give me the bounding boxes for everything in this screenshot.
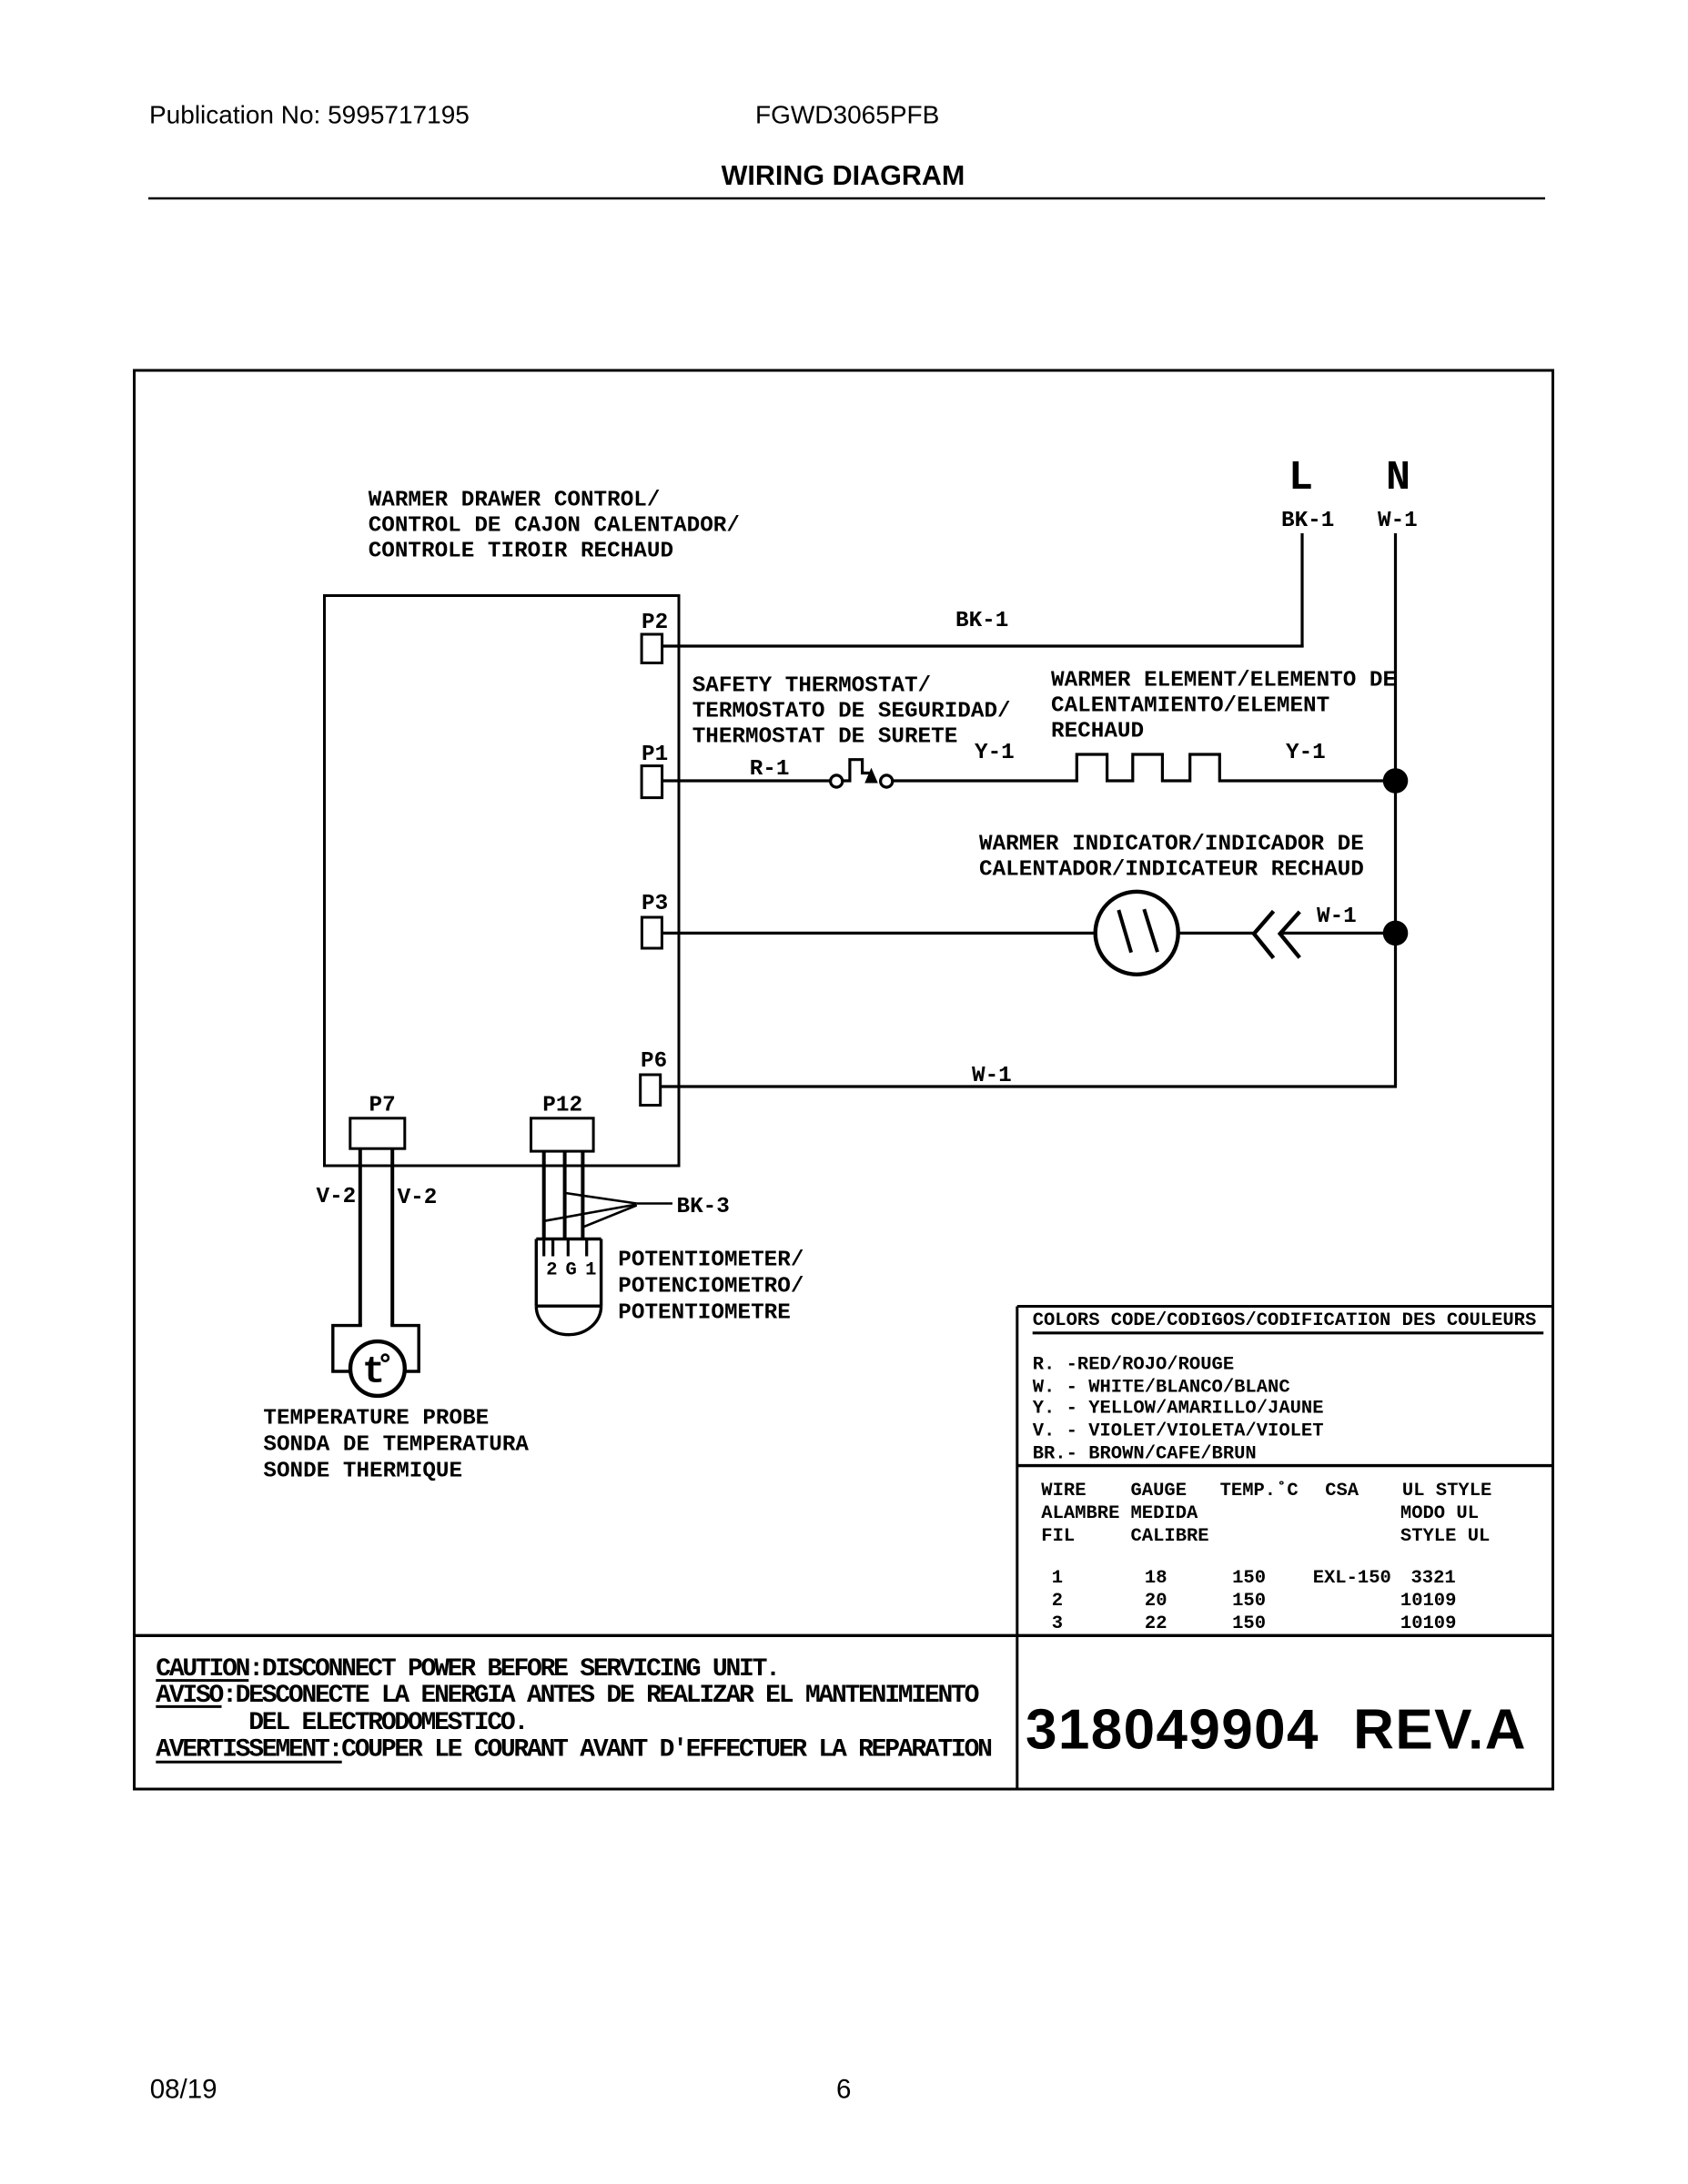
svg-text:COLORS CODE/CODIGOS/CODIFICATI: COLORS CODE/CODIGOS/CODIFICATION DES COU… [1033, 1310, 1537, 1331]
svg-text:SONDA DE TEMPERATURA: SONDA DE TEMPERATURA [263, 1433, 529, 1458]
svg-text:V-2: V-2 [398, 1186, 438, 1210]
svg-text:R. -RED/ROJO/ROUGE: R. -RED/ROJO/ROUGE [1033, 1354, 1234, 1375]
svg-text:W-1: W-1 [1378, 509, 1418, 533]
svg-text:W-1: W-1 [1317, 905, 1357, 929]
svg-text:P6: P6 [641, 1049, 667, 1074]
svg-text:Y-1: Y-1 [975, 741, 1015, 765]
svg-text:W-1: W-1 [972, 1064, 1012, 1088]
svg-text:SAFETY THERMOSTAT/: SAFETY THERMOSTAT/ [692, 674, 931, 699]
svg-text:L: L [1289, 455, 1313, 501]
svg-text:V-2: V-2 [317, 1185, 357, 1209]
svg-text:POTENCIOMETRO/: POTENCIOMETRO/ [618, 1275, 804, 1299]
svg-text:W. - WHITE/BLANCO/BLANC: W. - WHITE/BLANCO/BLANC [1033, 1377, 1290, 1398]
svg-text:V. - VIOLET/VIOLETA/VIOLET: V. - VIOLET/VIOLETA/VIOLET [1033, 1421, 1324, 1441]
svg-text:R-1: R-1 [750, 757, 790, 782]
svg-text:150: 150 [1232, 1613, 1266, 1634]
svg-text:UL STYLE: UL STYLE [1402, 1481, 1491, 1501]
svg-text:STYLE UL: STYLE UL [1400, 1526, 1490, 1547]
svg-text:318049904 REV.A: 318049904 REV.A [1026, 1699, 1527, 1762]
svg-text:10109: 10109 [1400, 1613, 1457, 1634]
svg-text:GAUGE: GAUGE [1131, 1481, 1188, 1501]
svg-text:20: 20 [1145, 1591, 1167, 1612]
svg-text:BK-1: BK-1 [955, 609, 1008, 633]
svg-text:10109: 10109 [1400, 1591, 1457, 1612]
svg-text:CALIBRE: CALIBRE [1131, 1526, 1209, 1547]
svg-text:Publication No: 5995717195: Publication No: 5995717195 [149, 101, 470, 129]
svg-text:BK-3: BK-3 [677, 1195, 730, 1219]
svg-text:6: 6 [836, 2075, 851, 2105]
svg-text:MEDIDA: MEDIDA [1131, 1503, 1199, 1524]
svg-text:FIL: FIL [1041, 1526, 1075, 1547]
svg-text:150: 150 [1232, 1568, 1266, 1589]
svg-text:P7: P7 [369, 1094, 396, 1118]
svg-text:2: 2 [546, 1259, 557, 1280]
svg-text:TEMPERATURE PROBE: TEMPERATURE PROBE [263, 1407, 489, 1431]
svg-text:P1: P1 [642, 743, 668, 767]
svg-text:CAUTION:DISCONNECT POWER BEFOR: CAUTION:DISCONNECT POWER BEFORE SERVICIN… [156, 1655, 778, 1683]
svg-text:22: 22 [1145, 1613, 1167, 1634]
svg-text:3: 3 [1052, 1613, 1063, 1634]
svg-text:P2: P2 [642, 611, 668, 635]
svg-text:TEMP.˚C: TEMP.˚C [1220, 1480, 1299, 1501]
svg-text:150: 150 [1232, 1591, 1266, 1612]
svg-text:WARMER ELEMENT/ELEMENTO DE: WARMER ELEMENT/ELEMENTO DE [1051, 669, 1396, 693]
svg-text:WIRING DIAGRAM: WIRING DIAGRAM [722, 160, 965, 191]
svg-text:RECHAUD: RECHAUD [1051, 720, 1144, 744]
svg-text:3321: 3321 [1411, 1568, 1456, 1589]
svg-text:MODO UL: MODO UL [1400, 1503, 1479, 1524]
svg-text:WARMER DRAWER CONTROL/: WARMER DRAWER CONTROL/ [369, 489, 661, 513]
svg-text:POTENTIOMETRE: POTENTIOMETRE [618, 1301, 791, 1326]
svg-text:CALENTADOR/INDICATEUR RECHAUD: CALENTADOR/INDICATEUR RECHAUD [979, 858, 1364, 883]
svg-text:WARMER INDICATOR/INDICADOR DE: WARMER INDICATOR/INDICADOR DE [979, 833, 1364, 857]
svg-text:SONDE THERMIQUE: SONDE THERMIQUE [263, 1460, 462, 1484]
svg-text:POTENTIOMETER/: POTENTIOMETER/ [618, 1249, 804, 1273]
svg-text:EXL-150: EXL-150 [1313, 1568, 1391, 1589]
svg-text:CSA: CSA [1325, 1481, 1359, 1501]
svg-text:ALAMBRE: ALAMBRE [1041, 1503, 1119, 1524]
svg-text:P3: P3 [642, 892, 668, 916]
svg-text:Y. - YELLOW/AMARILLO/JAUNE: Y. - YELLOW/AMARILLO/JAUNE [1033, 1398, 1324, 1419]
svg-text:G: G [566, 1259, 577, 1280]
svg-text:BR.- BROWN/CAFE/BRUN: BR.- BROWN/CAFE/BRUN [1033, 1444, 1257, 1465]
svg-text:CONTROL DE CAJON CALENTADOR/: CONTROL DE CAJON CALENTADOR/ [369, 514, 740, 539]
svg-text:08/19: 08/19 [150, 2075, 217, 2105]
svg-text:DEL ELECTRODOMESTICO.: DEL ELECTRODOMESTICO. [248, 1709, 527, 1737]
svg-text:AVERTISSEMENT:COUPER LE COURAN: AVERTISSEMENT:COUPER LE COURANT AVANT D'… [156, 1736, 991, 1764]
svg-text:1: 1 [1052, 1568, 1063, 1589]
svg-text:THERMOSTAT DE SURETE: THERMOSTAT DE SURETE [692, 725, 958, 750]
svg-text:BK-1: BK-1 [1281, 509, 1334, 533]
svg-text:CONTROLE TIROIR RECHAUD: CONTROLE TIROIR RECHAUD [369, 540, 673, 564]
svg-text:TERMOSTATO DE SEGURIDAD/: TERMOSTATO DE SEGURIDAD/ [692, 700, 1011, 724]
svg-text:18: 18 [1145, 1568, 1167, 1589]
svg-text:1: 1 [585, 1259, 596, 1280]
svg-text:N: N [1386, 455, 1410, 501]
svg-text:CALENTAMIENTO/ELEMENT: CALENTAMIENTO/ELEMENT [1051, 694, 1329, 719]
svg-text:2: 2 [1052, 1591, 1063, 1612]
svg-text:WIRE: WIRE [1041, 1481, 1086, 1501]
svg-text:AVISO:DESCONECTE LA ENERGIA AN: AVISO:DESCONECTE LA ENERGIA ANTES DE REA… [156, 1682, 978, 1710]
svg-text:FGWD3065PFB: FGWD3065PFB [755, 101, 939, 129]
svg-text:Y-1: Y-1 [1286, 741, 1326, 765]
svg-text:P12: P12 [542, 1094, 582, 1118]
